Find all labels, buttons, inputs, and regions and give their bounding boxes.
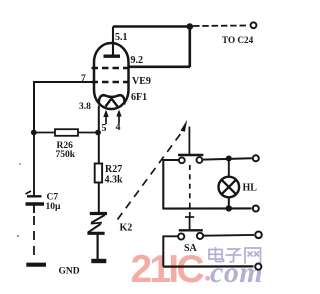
heater pin 5 with arrow (103, 110, 108, 125)
wire: left side of lamp block (162, 159, 164, 210)
svg-text:10µ: 10µ (46, 202, 62, 212)
wire: top rail from anode pin to corner (113, 25, 190, 28)
wire: cathode pin 3.8 down to junction (98, 106, 100, 165)
wire: lamp top stub (228, 159, 230, 177)
K2 contact middle tick (91, 223, 102, 224)
wire: bottom rail (163, 265, 253, 267)
relay contact K2-1 left terminal circle (179, 157, 185, 163)
junction dot left of R26 (31, 130, 37, 136)
switch SA actuator stub (189, 217, 191, 230)
speck artifact left (19, 163, 21, 165)
svg-text:4: 4 (116, 122, 121, 133)
terminal mid right (253, 206, 259, 212)
ground bar GND (26, 263, 46, 267)
wire: anode pin up to top rail (112, 27, 114, 55)
wire (dashed) to terminal TO C24 (193, 25, 248, 28)
watermark chinese glyph 网 (245, 248, 261, 264)
relay contact K2-1 bridge bar (178, 154, 203, 157)
cathode bowl (99, 95, 125, 104)
wire: SA rail right segment (203, 234, 254, 237)
relay contact K2 bottom bar (87, 232, 104, 235)
junction dot top rail (187, 23, 194, 30)
capacitor C7 bottom plate (26, 202, 45, 206)
svg-text:9.2: 9.2 (131, 55, 144, 66)
capacitor C7 top plate (27, 195, 42, 197)
junction dot above lamp (226, 156, 232, 162)
svg-text:4.3k: 4.3k (105, 175, 124, 186)
switch SA right terminal circle (197, 233, 203, 239)
svg-text:HL: HL (243, 183, 258, 194)
svg-text:SA: SA (184, 243, 198, 254)
wire: lamp block top rail left segment (163, 159, 179, 161)
heater pin 4 with arrow (116, 110, 121, 124)
wire: left rail down to C7 (33, 133, 35, 196)
wire: R27 to K2 contact (98, 183, 100, 214)
svg-text:5.1: 5.1 (115, 32, 128, 43)
svg-text:K2: K2 (120, 223, 133, 234)
ground bar under K2 (91, 259, 106, 263)
wire: corner down to grid wire (189, 27, 192, 68)
heater filament (106, 99, 118, 107)
switch SA bridge bar (179, 229, 203, 231)
wire: SA rail left segment (163, 235, 178, 237)
grid 2 (dashed) (92, 81, 129, 83)
svg-text:VE9: VE9 (132, 76, 151, 87)
switch SA left terminal circle (178, 233, 184, 239)
relay contact K2 top bar (90, 212, 107, 215)
svg-text:GND: GND (59, 267, 80, 277)
svg-text:C7: C7 (47, 193, 59, 203)
terminal SA right (255, 232, 262, 239)
watermark chinese glyph 子 (226, 249, 242, 262)
svg-text:3.8: 3.8 (79, 102, 91, 112)
switch SA actuator tick (185, 216, 194, 218)
junction dot right of R26 (95, 130, 101, 136)
terminal TO C24 (251, 22, 257, 28)
mechanical linkage (dashed diagonal) from K2 (118, 128, 185, 220)
watermark logo 21IC (131, 248, 205, 291)
wire: grid 2 (pin 7) to left rail (34, 82, 94, 133)
wire: lamp bottom stub (228, 197, 230, 208)
relay contact K2-1 right terminal circle (197, 157, 203, 163)
svg-text:5: 5 (102, 123, 107, 134)
watermark .com script (205, 276, 210, 281)
K2 contact blade lower diagonal (88, 224, 101, 232)
resistor R27 body (95, 164, 102, 183)
grid 1 (dashed) (92, 67, 129, 69)
tube V1 (VE9 / 6F1) envelope (94, 43, 129, 109)
terminal bottom right (255, 264, 261, 270)
watermark chinese glyph 电 (209, 247, 224, 262)
terminal top right (253, 155, 259, 161)
capacitor C7 polarity tick (26, 191, 32, 194)
svg-text:com: com (210, 256, 263, 289)
contact actuator stub (188, 127, 190, 156)
mechanical linkage (dashed vertical) to SA (189, 165, 191, 221)
resistor R26 body (55, 129, 78, 136)
K2 contact blade upper diagonal (91, 215, 105, 223)
wire: lamp block bottom rail (163, 207, 251, 209)
linkage arrowhead (180, 120, 187, 132)
anode plate (104, 55, 121, 58)
wire: grid 1 to corner (node 9.2) (129, 66, 191, 69)
wire: C7 to ground (partly dashed) (33, 206, 35, 214)
svg-text:6F1: 6F1 (131, 92, 147, 103)
junction dot below lamp (226, 205, 232, 211)
wire: top rail right segment (202, 158, 252, 159)
svg-text:21IC: 21IC (131, 248, 205, 291)
wire: K2 to ground bar (96, 235, 98, 260)
wire: SA block left side (162, 236, 164, 267)
svg-text:R27: R27 (105, 164, 122, 175)
wire: R26 horizontal (34, 132, 98, 134)
svg-text:750k: 750k (56, 150, 76, 160)
lamp HL (219, 177, 240, 198)
svg-text:TO C24: TO C24 (222, 35, 254, 45)
